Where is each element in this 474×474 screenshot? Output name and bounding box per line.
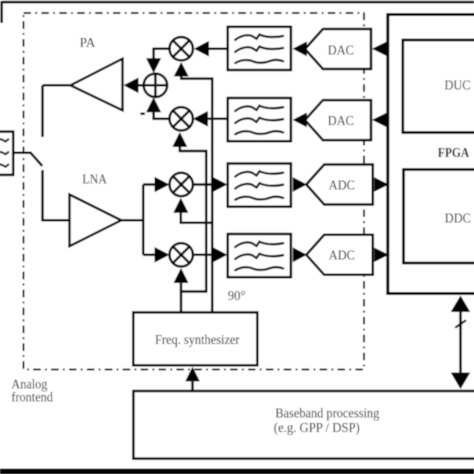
arrow FPGA to DAC2: [372, 113, 387, 127]
wire RX contact vertical: [41, 170, 44, 220]
svg-text:(e.g. GPP / DSP): (e.g. GPP / DSP): [274, 421, 360, 436]
Baseband processing box (clipped right): [133, 391, 474, 459]
wire PA output: [43, 84, 72, 87]
wire LO to mixer3: [173, 198, 213, 224]
frame top edge: [2, 1, 474, 4]
wire split to mixer3 with arrow: [143, 177, 169, 193]
wire antenna filter to switch pole: [13, 152, 32, 155]
filter F4: [228, 234, 291, 277]
wire summer to PA with arrow: [124, 78, 144, 94]
svg-text:DDC: DDC: [445, 211, 471, 226]
arrow baseband to synthesizer: [185, 367, 200, 391]
DUC box (clipped right): [403, 40, 474, 133]
switch lever: [31, 153, 43, 166]
arrow DAC1 to filter1: [293, 41, 307, 56]
LO line B (0 deg) vertical: [211, 79, 214, 313]
wire mixer3 to filter3 with arrow: [193, 177, 228, 193]
filter F2: [228, 98, 291, 141]
DDC box (clipped right): [404, 170, 474, 264]
wire filter2 to mixer2 with arrow: [193, 111, 228, 127]
arrow FPGA to DAC1: [372, 42, 387, 56]
antenna band filter (clipped at left): [0, 132, 13, 175]
double arrow FPGA to baseband: [451, 296, 471, 390]
svg-text:ADC: ADC: [329, 178, 355, 193]
svg-text:DUC: DUC: [445, 78, 471, 93]
DAC 1 block: [305, 29, 371, 69]
wire filter1 to mixer1 with arrow: [194, 41, 228, 57]
wire mixer1 output to summer: [146, 48, 169, 74]
wire to LNA input: [41, 219, 70, 222]
wire LO stub mixer4 line to line A: [181, 290, 207, 293]
svg-text:LNA: LNA: [82, 173, 107, 188]
mixer M3: [170, 173, 193, 196]
svg-text:Baseband processing: Baseband processing: [275, 406, 379, 421]
analog frontend dash-dot border: [24, 13, 365, 370]
amplifier PA: [71, 36, 123, 110]
wire mixer4 to filter4 with arrow: [193, 247, 228, 263]
arrow filter3 to ADC1: [293, 177, 307, 192]
svg-text:Freq. synthesizer: Freq. synthesizer: [155, 333, 240, 348]
minus mark near summer: [140, 113, 145, 116]
mixer M2: [170, 107, 193, 130]
arrow ADC2 to FPGA: [374, 248, 389, 262]
ADC 2 block: [306, 235, 373, 275]
arrow ADC1 to FPGA: [374, 177, 389, 191]
mixer M1: [170, 37, 193, 60]
arrow DAC2 to filter2: [293, 113, 307, 128]
svg-text:PA: PA: [80, 36, 97, 51]
arrow filter4 to ADC2: [293, 247, 307, 262]
LO line A (90 deg) vertical: [205, 151, 208, 292]
frame bottom bar: [0, 469, 474, 474]
filter F3: [228, 164, 291, 207]
wire split to mixer4 with arrow: [143, 247, 169, 263]
wire LNA output split: [121, 185, 144, 255]
Freq. synthesizer box: [133, 312, 257, 365]
svg-text:DAC: DAC: [328, 114, 354, 129]
wire mixer2 output to summer: [146, 97, 169, 120]
wire TX contact vertical: [41, 85, 44, 137]
frame left edge remnant: [0, 1, 3, 23]
mixer M4: [170, 243, 193, 266]
ADC 1 block: [306, 165, 373, 205]
svg-text:FPGA: FPGA: [438, 146, 470, 161]
wire LO to mixer2: [172, 132, 207, 152]
FPGA box (clipped right): [388, 15, 474, 294]
svg-text:DAC: DAC: [328, 43, 354, 58]
amplifier LNA: [70, 173, 122, 247]
summer (plus circle): [144, 74, 167, 97]
svg-text:frontend: frontend: [11, 391, 53, 406]
DAC 2 block: [305, 100, 371, 140]
wire LO to mixer4: [174, 268, 189, 313]
filter F1: [228, 27, 291, 70]
svg-text:90°: 90°: [228, 289, 246, 304]
svg-text:ADC: ADC: [329, 249, 355, 264]
wire LO to mixer1: [174, 62, 214, 80]
